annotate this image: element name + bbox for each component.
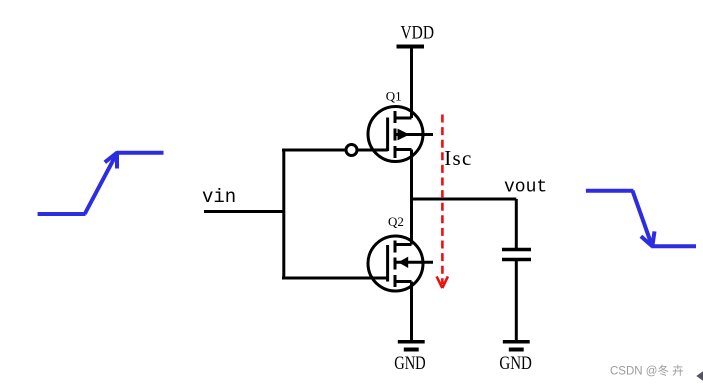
svg-text:CSDN @冬 卉: CSDN @冬 卉 bbox=[610, 364, 684, 378]
svg-text:Q2: Q2 bbox=[388, 214, 404, 229]
svg-text:VDD: VDD bbox=[401, 23, 435, 44]
svg-text:Isc: Isc bbox=[444, 146, 472, 170]
svg-text:Q1: Q1 bbox=[386, 89, 402, 104]
svg-text:vin: vin bbox=[202, 186, 236, 208]
svg-text:vout: vout bbox=[504, 177, 547, 197]
svg-text:GND: GND bbox=[394, 353, 426, 374]
svg-text:GND: GND bbox=[499, 353, 532, 374]
